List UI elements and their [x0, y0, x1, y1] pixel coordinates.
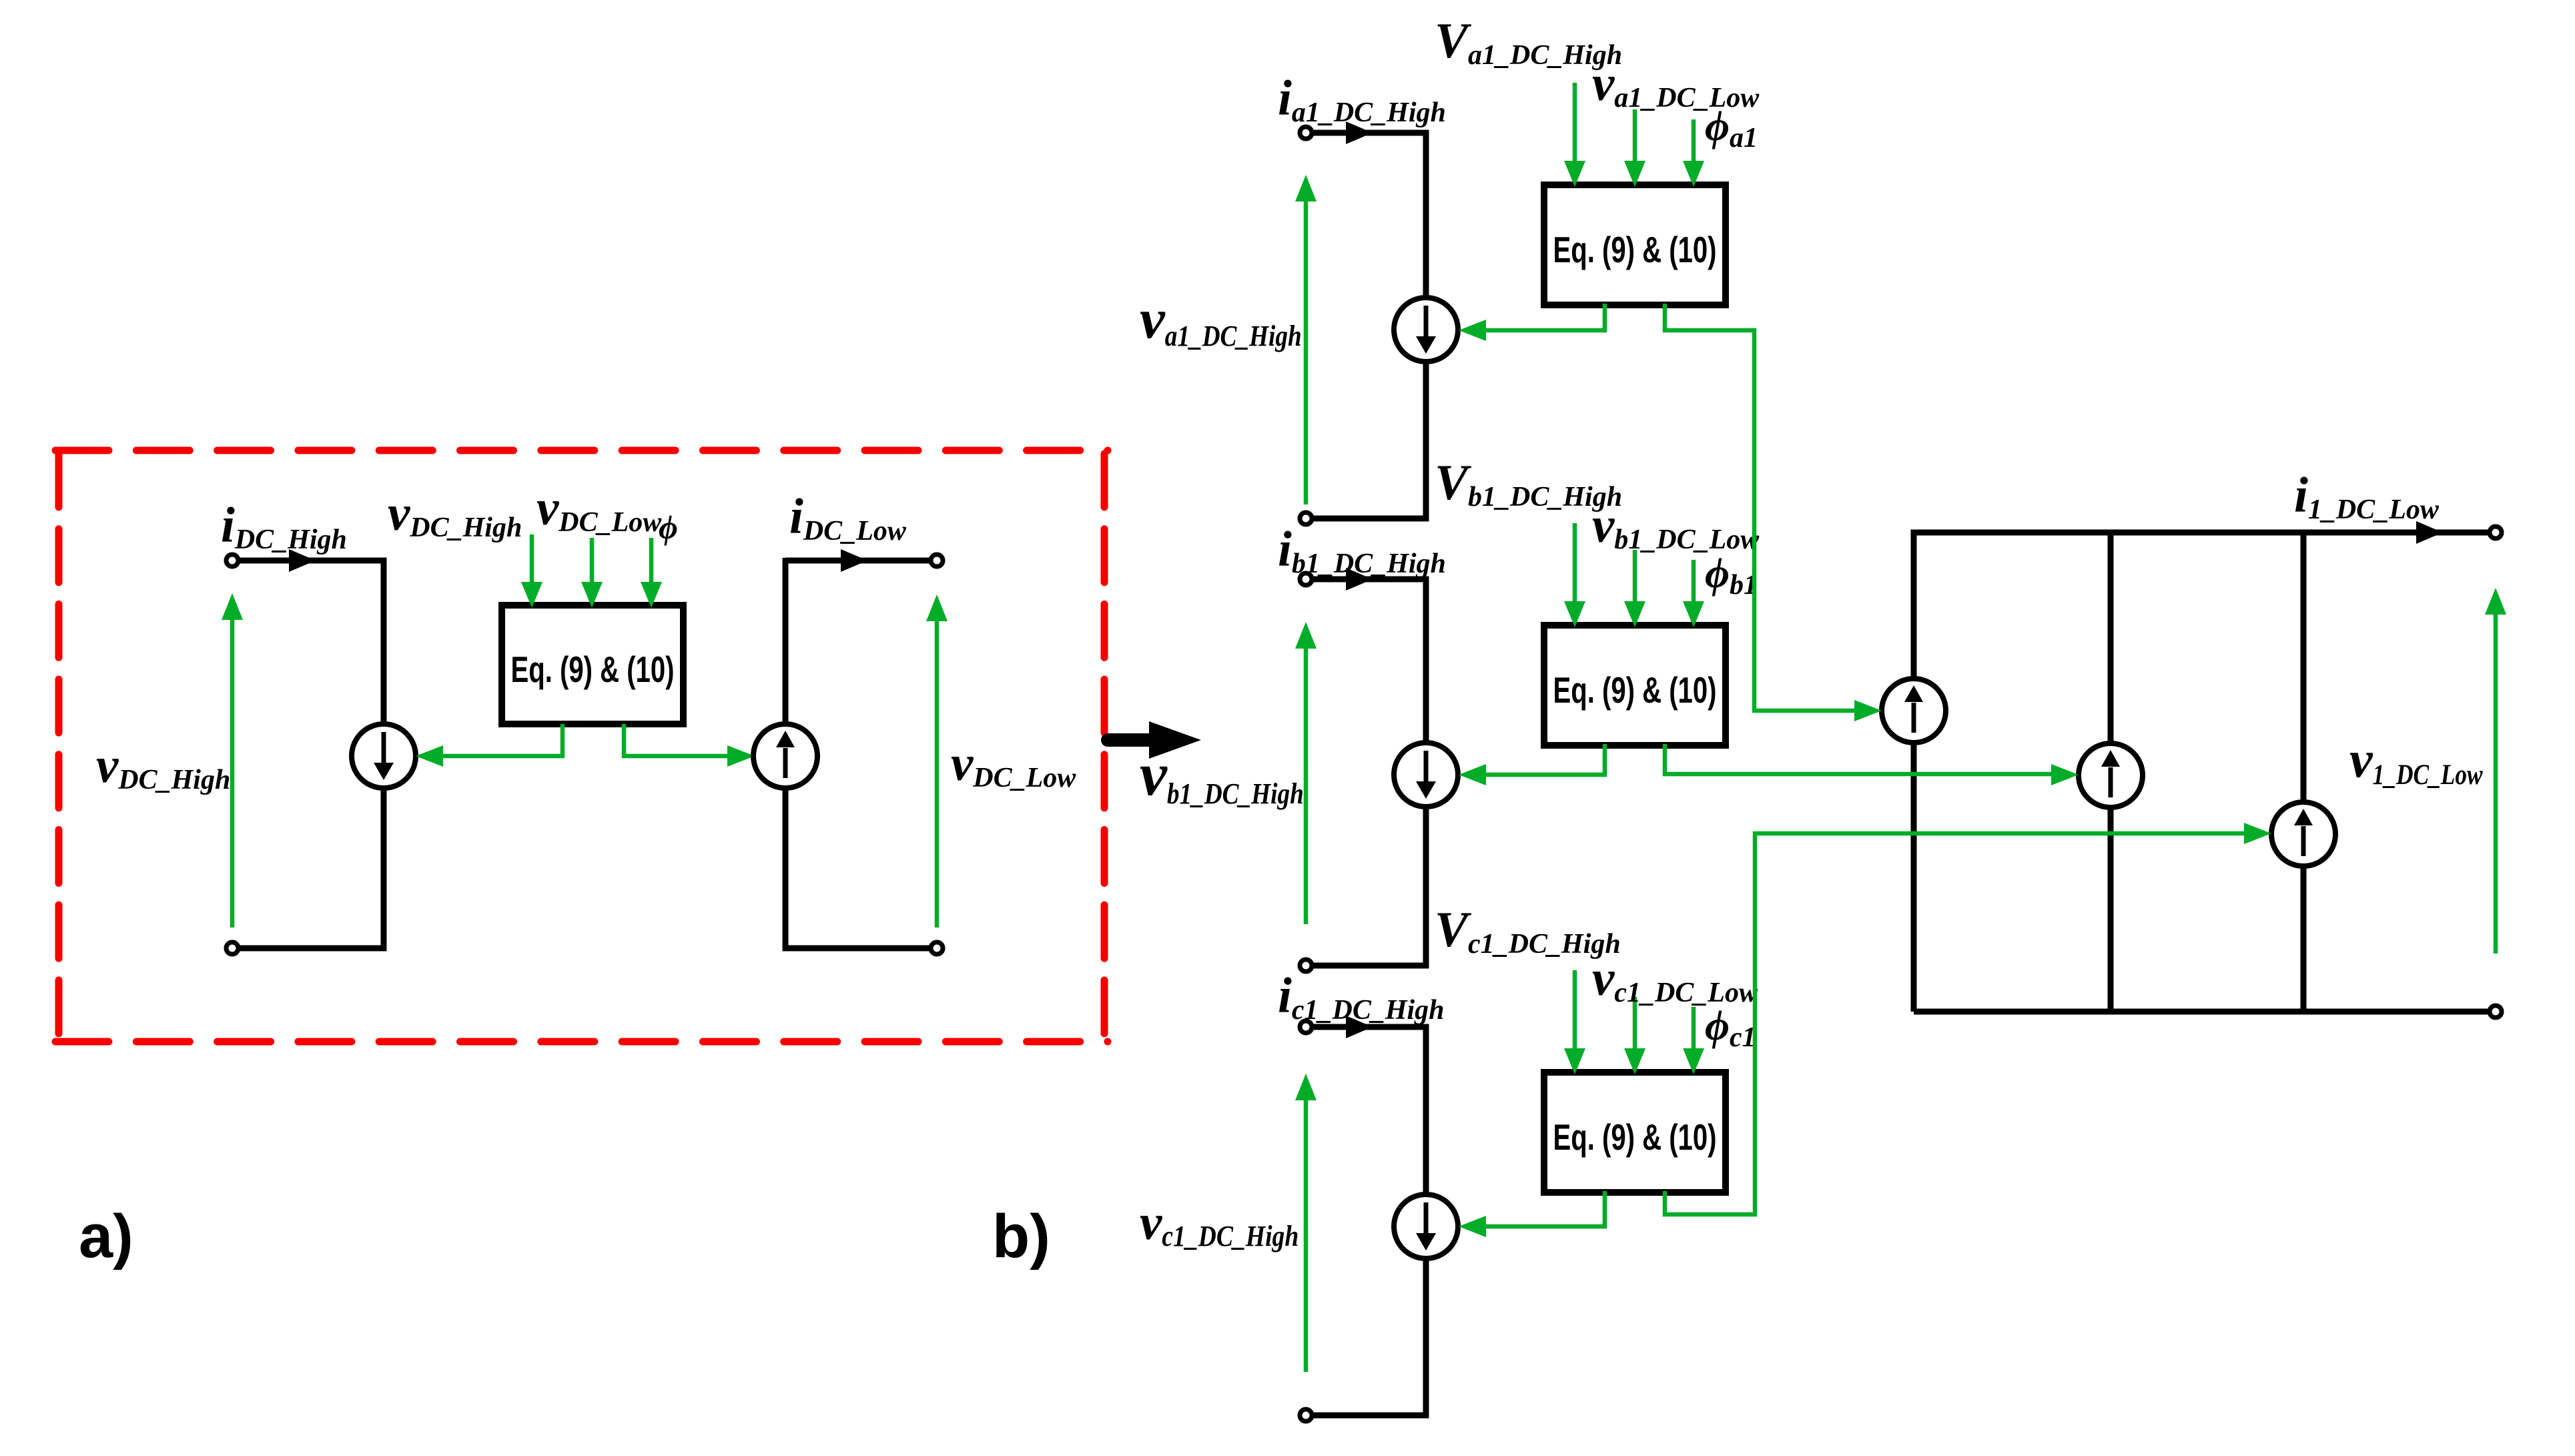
green control wire: Eq box c1 right output routed to output current source 3: [1665, 833, 2245, 1214]
svg-text:b): b): [992, 1202, 1050, 1270]
wire: a) left branch bottom to minus terminal: [238, 787, 384, 948]
svg-text:Eq. (9) & (10): Eq. (9) & (10): [511, 649, 675, 690]
wire: a) right vertical to current source I2: [783, 558, 789, 725]
wire: a) top-left horizontal + left vertical to current source: [238, 561, 384, 725]
output current source 1 (up arrow): [1882, 679, 1946, 743]
green arrowhead into I1: [416, 745, 443, 767]
green control wire: Eq box a) right output to current source I2: [624, 724, 729, 756]
green arrowhead into phase a1 current source: [1459, 320, 1486, 341]
green arrowhead into phase c1 current source: [1459, 1216, 1486, 1237]
big black arrow from a) to b): [1108, 733, 1152, 747]
wire: output network vertical branch 3: [2301, 532, 2307, 1012]
green arrowhead into output current source 3: [2244, 823, 2271, 844]
green control wire: Eq box c1 left output to phase current source: [1486, 1191, 1605, 1226]
current source I1 (controlled, down arrow) left branch of a): [352, 724, 416, 788]
green control wire: Eq box a) left output to current source I1: [442, 724, 563, 756]
green input arrow 2 (v_a1_DC_Low) into Eq box a1: [1633, 109, 1637, 162]
block: Eq. (9) & (10) controller box phase c1: [1544, 1072, 1726, 1192]
wire: a) right branch bottom to minus terminal: [785, 787, 931, 948]
terminal: phase a1 DC_High plus terminal: [1300, 127, 1312, 139]
wire: output network top rail: [1914, 532, 2490, 1012]
terminal: output DC_Low plus terminal: [2490, 526, 2502, 538]
green arrow: v_DC_High sensing arrow (up) left side of a): [230, 619, 235, 928]
wire: phase b1 bottom of branch to minus terminal: [1312, 806, 1426, 966]
terminal: output DC_Low minus terminal: [2490, 1006, 2502, 1018]
green control wire: Eq box b1 left output to phase current source: [1486, 744, 1605, 775]
svg-text:Eq. (9) & (10): Eq. (9) & (10): [1553, 669, 1717, 711]
wire: output network middle vertical branch 2: [2108, 532, 2114, 1012]
current source I2 (controlled, up arrow) right branch of a): [753, 724, 817, 788]
green input arrow 2 (v_DC_Low) into Eq box a): [590, 538, 595, 583]
terminal: a) DC_Low minus terminal: [931, 942, 943, 954]
output current source 2 (up arrow): [2079, 743, 2143, 807]
green input arrow 1 (v_DC_High) into Eq box a): [530, 534, 534, 583]
green control wire: Eq box a1 right output routed to output current source 1: [1665, 304, 1856, 711]
block: Eq. (9) & (10) controller box phase a1: [1544, 185, 1726, 305]
arrowhead i_c1_DC_High on wire: [1346, 1016, 1373, 1038]
green input arrow 3 (phi) into Eq box a): [649, 538, 654, 583]
green input arrow 1 (V_b1_DC_High) into Eq box b1: [1573, 523, 1577, 603]
current source (down arrow) phase c1: [1394, 1194, 1458, 1258]
wire: phase c1 bottom of branch to minus terminal: [1312, 1258, 1426, 1415]
terminal: phase a1 DC_High minus terminal: [1300, 512, 1312, 524]
wire: phase a1 bottom of branch to minus terminal: [1312, 361, 1426, 518]
terminal: phase b1 DC_High plus terminal: [1300, 573, 1312, 585]
green input arrow 2 (v_c1_DC_Low) into Eq box c1: [1633, 997, 1637, 1050]
current source (down arrow) phase a1: [1394, 298, 1458, 362]
terminal: a) DC_High minus terminal: [226, 942, 238, 954]
green arrowhead into phase b1 current source: [1459, 764, 1486, 785]
green input arrow 1 (V_c1_DC_High) into Eq box c1: [1573, 970, 1577, 1050]
terminal: phase c1 DC_High minus terminal: [1300, 1409, 1312, 1421]
green input arrow 1 (V_a1_DC_High) into Eq box a1: [1573, 83, 1577, 162]
green arrowhead into output current source 1: [1854, 700, 1882, 721]
green input arrow 3 (phi_a1) into Eq box a1: [1692, 119, 1696, 162]
arrowhead i_DC_High on wire: [289, 549, 316, 572]
svg-text:ϕ: ϕ: [659, 508, 678, 546]
green arrow: v_1_DC_Low sensing arrow (up): [2494, 613, 2498, 954]
wire: a) right branch top horizontal to plus terminal: [785, 558, 931, 564]
wire: phase a1 top horizontal + vertical to current source: [1312, 133, 1426, 298]
terminal: phase b1 DC_High minus terminal: [1300, 960, 1312, 972]
green arrow: v_DC_Low sensing arrow (up) right side of a): [935, 620, 940, 928]
terminal: phase c1 DC_High plus terminal: [1300, 1021, 1312, 1033]
wire: phase c1 top horizontal + vertical to current source: [1312, 1027, 1426, 1195]
arrowhead i_DC_Low on wire: [841, 549, 867, 572]
green arrow: v_b1_DC_High sensing arrow (up) phase b1: [1304, 647, 1309, 924]
green input arrow 2 (v_b1_DC_Low) into Eq box b1: [1633, 550, 1637, 603]
green arrow: v_c1_DC_High sensing arrow (up) phase c1: [1304, 1099, 1309, 1372]
green arrow: v_a1_DC_High sensing arrow (up) phase a1: [1304, 200, 1309, 504]
block: Eq. (9) & (10) controller box phase b1: [1544, 625, 1726, 745]
wire: output network bottom rail: [1914, 1009, 2490, 1015]
terminal: a) DC_High plus terminal: [226, 555, 238, 567]
svg-text:Eq. (9) & (10): Eq. (9) & (10): [1553, 229, 1717, 270]
svg-text:Eq. (9) & (10): Eq. (9) & (10): [1553, 1116, 1717, 1158]
green input arrow 3 (phi_c1) into Eq box c1: [1692, 1007, 1696, 1050]
arrowhead i_a1_DC_High on wire: [1346, 121, 1373, 144]
svg-text:a): a): [79, 1202, 133, 1270]
dashed red boundary box of averaged single-phase DAB model a): [55, 447, 1108, 454]
wire: phase b1 top horizontal + vertical to current source: [1312, 579, 1426, 743]
green control wire: Eq box a1 left output to phase current source: [1486, 304, 1605, 330]
output current source 3 (up arrow): [2271, 802, 2335, 866]
green arrowhead into output current source 2: [2051, 764, 2079, 785]
green input arrow 3 (phi_b1) into Eq box b1: [1692, 560, 1696, 603]
arrowhead i_b1_DC_High on wire: [1346, 568, 1373, 591]
green arrowhead into I2: [727, 745, 755, 767]
terminal: a) DC_Low plus terminal: [931, 555, 943, 567]
block: Eq. (9) & (10) controller box of a): [502, 605, 683, 724]
green control wire: Eq box b1 right output routed to output current source 2: [1665, 744, 2053, 774]
current source (down arrow) phase b1: [1394, 743, 1458, 807]
arrowhead i_1_DC_Low on top rail: [2416, 521, 2443, 544]
